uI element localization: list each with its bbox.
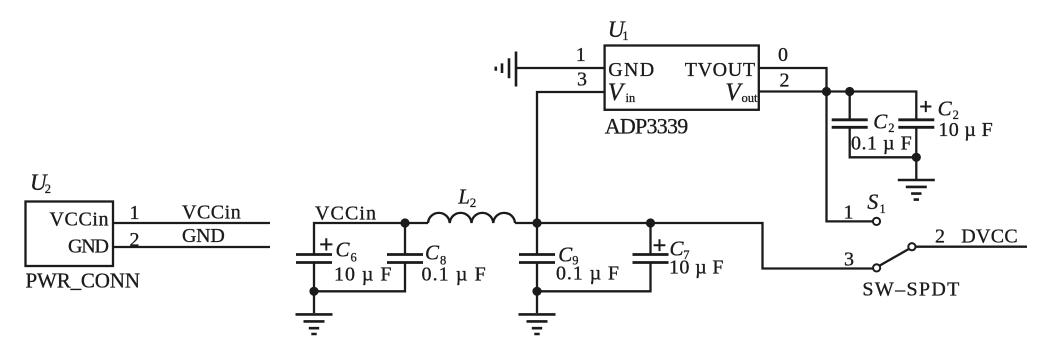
svg-text:TVOUT: TVOUT — [685, 59, 755, 81]
svg-text:GND: GND — [608, 59, 654, 81]
svg-text:1: 1 — [576, 44, 586, 66]
svg-text:DVCC: DVCC — [961, 226, 1018, 248]
svg-text:GND: GND — [68, 236, 109, 258]
svg-text:VCCin: VCCin — [182, 201, 241, 223]
svg-text:2: 2 — [935, 226, 945, 248]
svg-text:1: 1 — [622, 29, 628, 43]
svg-text:SW–SPDT: SW–SPDT — [862, 279, 959, 301]
svg-text:2: 2 — [470, 195, 477, 210]
svg-text:1: 1 — [844, 202, 854, 224]
svg-text:2: 2 — [130, 229, 140, 251]
svg-text:10 µ F: 10 µ F — [669, 257, 724, 279]
svg-text:6: 6 — [351, 251, 357, 265]
svg-text:in: in — [626, 91, 636, 105]
svg-text:1: 1 — [130, 202, 140, 224]
svg-text:0: 0 — [778, 44, 788, 66]
svg-text:C: C — [938, 97, 953, 121]
svg-text:V: V — [608, 79, 626, 106]
svg-text:C: C — [336, 238, 351, 262]
svg-text:PWR_CONN: PWR_CONN — [26, 269, 141, 293]
svg-text:C: C — [873, 110, 888, 134]
svg-text:out: out — [742, 91, 759, 105]
svg-text:2: 2 — [45, 182, 51, 196]
svg-text:3: 3 — [577, 69, 587, 91]
svg-text:10 µ F: 10 µ F — [938, 119, 992, 141]
svg-text:2: 2 — [780, 69, 790, 91]
svg-text:0.1 µ F: 0.1 µ F — [422, 264, 486, 286]
svg-text:3: 3 — [844, 249, 854, 271]
svg-text:0.1 µ F: 0.1 µ F — [851, 132, 912, 154]
svg-text:S: S — [867, 189, 878, 214]
svg-text:L: L — [457, 185, 470, 209]
svg-text:ADP3339: ADP3339 — [605, 113, 688, 138]
svg-text:10 µ F: 10 µ F — [334, 264, 392, 286]
svg-text:VCCin: VCCin — [315, 203, 376, 225]
svg-text:VCCin: VCCin — [50, 208, 109, 230]
svg-text:C: C — [425, 241, 440, 265]
svg-text:1: 1 — [880, 202, 886, 216]
svg-text:0.1 µ F: 0.1 µ F — [556, 263, 619, 285]
svg-text:GND: GND — [182, 225, 225, 247]
